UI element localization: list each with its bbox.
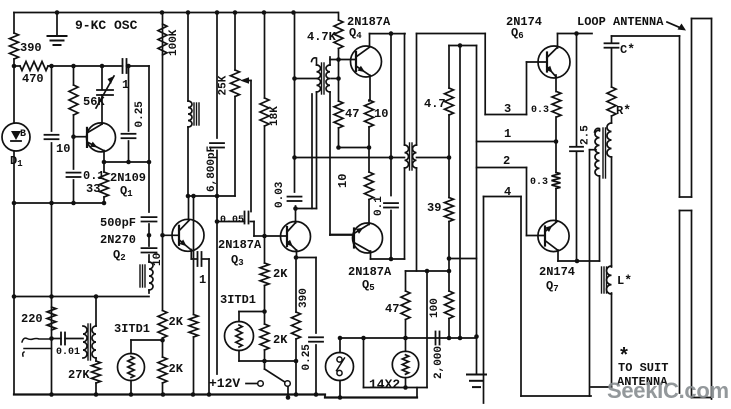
svg-text:3ITD1: 3ITD1 [114, 322, 150, 336]
svg-text:10: 10 [336, 174, 350, 188]
svg-text:2K: 2K [273, 267, 288, 281]
svg-text:25K: 25K [218, 75, 230, 95]
svg-text:C*: C* [620, 42, 635, 57]
svg-text:SeekIC.com: SeekIC.com [607, 378, 729, 403]
svg-text:390: 390 [20, 41, 42, 55]
svg-text:0.3: 0.3 [530, 177, 548, 188]
svg-text:2K: 2K [273, 333, 288, 347]
svg-text:1: 1 [504, 127, 511, 141]
svg-text:3: 3 [504, 102, 511, 116]
svg-text:2N187A: 2N187A [348, 265, 392, 279]
svg-text:0.25: 0.25 [301, 344, 313, 371]
svg-text:2N270: 2N270 [100, 233, 136, 247]
svg-text:2N109: 2N109 [110, 171, 146, 185]
svg-text:TO SUIT: TO SUIT [618, 361, 668, 375]
svg-text:0.03: 0.03 [274, 181, 286, 208]
svg-text:0.1: 0.1 [373, 196, 385, 216]
svg-text:6,800pF: 6,800pF [206, 146, 218, 192]
svg-text:L*: L* [617, 273, 632, 288]
svg-text:0.01: 0.01 [56, 347, 80, 358]
svg-text:0.25: 0.25 [134, 101, 146, 128]
svg-text:4.7K: 4.7K [307, 30, 337, 44]
svg-text:3ITD1: 3ITD1 [220, 293, 256, 307]
svg-text:14X2: 14X2 [369, 377, 400, 392]
svg-text:4: 4 [504, 185, 511, 199]
svg-text:47: 47 [345, 107, 359, 121]
svg-text:47: 47 [385, 302, 399, 316]
svg-text:470: 470 [22, 72, 44, 86]
svg-text:2,000: 2,000 [433, 346, 445, 379]
svg-text:4.7: 4.7 [424, 97, 446, 111]
svg-text:100K: 100K [168, 29, 180, 56]
svg-text:9-KC OSC: 9-KC OSC [75, 18, 138, 33]
svg-text:500pF: 500pF [100, 216, 136, 230]
svg-text:2: 2 [503, 154, 510, 168]
svg-text:R*: R* [616, 103, 631, 118]
svg-text:39: 39 [427, 201, 441, 215]
svg-text:1: 1 [199, 273, 206, 287]
svg-text:27K: 27K [68, 368, 90, 382]
svg-text:390: 390 [298, 288, 310, 308]
svg-text:100: 100 [429, 298, 441, 318]
svg-text:2.5: 2.5 [580, 125, 592, 145]
svg-text:10: 10 [56, 142, 70, 156]
svg-text:2K: 2K [169, 315, 184, 329]
svg-text:0.3: 0.3 [531, 105, 549, 116]
svg-text:0.05: 0.05 [220, 215, 244, 226]
svg-text:220: 220 [21, 312, 43, 326]
svg-text:18K: 18K [269, 106, 281, 126]
svg-text:10: 10 [374, 107, 388, 121]
svg-text:LOOP ANTENNA: LOOP ANTENNA [577, 15, 664, 29]
svg-text:2N174: 2N174 [539, 265, 575, 279]
svg-text:2N187A: 2N187A [218, 238, 262, 252]
svg-text:B: B [20, 129, 26, 140]
svg-text:2K: 2K [169, 362, 184, 376]
svg-text:+12V: +12V [209, 376, 240, 391]
